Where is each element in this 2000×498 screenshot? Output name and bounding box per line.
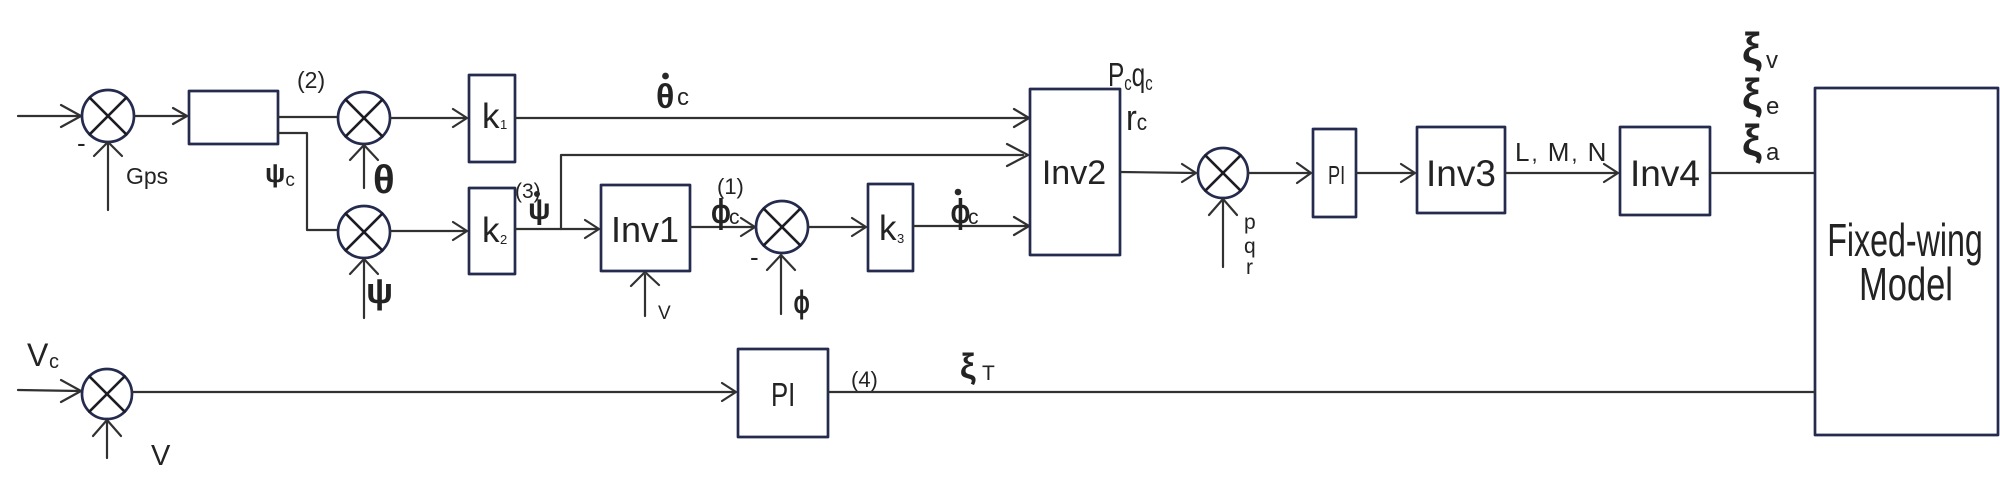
svg-text:-: - <box>77 128 86 158</box>
svg-text:a: a <box>1766 139 1780 166</box>
label Vc <box>27 337 59 373</box>
svg-text:Inv4: Inv4 <box>1630 153 1700 194</box>
wire: S4 to k3 <box>808 218 866 236</box>
wire: PI throttle output to Fixed-wing Model <box>828 391 1815 393</box>
block k1 <box>469 75 515 162</box>
svg-text:c: c <box>49 351 59 373</box>
svg-text:e: e <box>1766 93 1779 120</box>
block PI (rate loop) <box>1313 129 1356 217</box>
label xi_v <box>1742 24 1778 74</box>
svg-text:c: c <box>729 206 740 229</box>
wire: S6 to PI (throttle) <box>132 383 736 401</box>
wire: Inv2 to summing junction S5 <box>1120 164 1196 182</box>
block B1 (empty rectangle) <box>189 91 278 144</box>
svg-text:k: k <box>879 209 897 248</box>
svg-text:θ: θ <box>656 78 674 116</box>
svg-text:rc: rc <box>1126 98 1147 138</box>
label xi_e <box>1742 70 1779 120</box>
wire: S1 to block B1 <box>134 108 187 124</box>
block Inv3 <box>1417 127 1505 213</box>
svg-text:c: c <box>968 206 979 229</box>
svg-text:k: k <box>482 97 500 136</box>
svg-text:ψ: ψ <box>366 270 393 311</box>
svg-text:3: 3 <box>897 231 904 246</box>
svg-text:c: c <box>677 84 689 111</box>
wire: S3 to k2 <box>390 222 467 240</box>
label phi_dot_c <box>951 189 979 231</box>
summing junction S6 (speed error) <box>82 369 132 419</box>
wire: Inv3 to Inv4 (L M N) <box>1505 164 1618 182</box>
svg-text:V: V <box>151 440 171 472</box>
svg-text:Inv3: Inv3 <box>1426 153 1496 194</box>
wire: Gps feedback arrow into S1 from below <box>94 142 122 210</box>
svg-text:Model: Model <box>1859 258 1953 310</box>
wire: psi_c branch from B1 down to summing junction S3 <box>278 133 338 230</box>
block Inv2 <box>1030 89 1120 255</box>
svg-text:ξ: ξ <box>1742 24 1762 73</box>
block k3 <box>868 184 913 271</box>
svg-text:V: V <box>27 337 49 373</box>
svg-text:ϕ: ϕ <box>794 284 810 320</box>
summing junction S3 (heading) <box>338 206 390 258</box>
svg-text:r: r <box>1246 256 1253 279</box>
block Inv4 <box>1620 127 1710 215</box>
svg-text:(4): (4) <box>851 367 878 392</box>
svg-text:Inv1: Inv1 <box>611 209 679 250</box>
svg-text:ψc: ψc <box>265 158 295 191</box>
svg-text:ϕ: ϕ <box>711 193 731 231</box>
summing junction S1 (position error) <box>82 90 134 142</box>
block PI (throttle) <box>738 349 828 437</box>
label phi_c <box>711 193 740 231</box>
svg-text:-: - <box>750 242 759 272</box>
wire: psi arrow into S3 from below <box>350 259 378 318</box>
svg-text:θ: θ <box>373 158 395 202</box>
block Fixed-wing Model <box>1815 88 1998 435</box>
svg-text:ξ: ξ <box>1742 116 1762 165</box>
svg-text:ψ: ψ <box>528 193 551 226</box>
wire: k1 to Inv2 (theta_dot_c command) <box>515 109 1029 127</box>
svg-text:PI: PI <box>771 377 795 414</box>
svg-text:v: v <box>1766 47 1778 74</box>
wire: k2 to Inv1 <box>515 220 599 238</box>
svg-text:1: 1 <box>500 117 507 132</box>
svg-text:p: p <box>1244 211 1256 234</box>
label xi_T <box>960 347 995 386</box>
wire: theta arrow into S2 from below <box>350 145 378 188</box>
wire: k3 to Inv2 (phi_dot_c) <box>913 217 1029 235</box>
svg-text:(2): (2) <box>297 67 325 93</box>
wire: Vc input arrow into summing junction S6 <box>18 380 81 402</box>
svg-text:Inv2: Inv2 <box>1042 154 1106 192</box>
svg-text:T: T <box>982 362 995 385</box>
wire: S2 to k1 <box>390 109 467 127</box>
wire: main input arrow into summing junction S1 <box>18 105 81 127</box>
wire: V arrow into S6 from below <box>93 420 121 458</box>
label xi_a <box>1742 116 1780 166</box>
wire: V arrow into Inv1 from below <box>631 272 659 316</box>
summing junction S2 (pitch) <box>338 92 390 144</box>
svg-text:2: 2 <box>500 232 507 247</box>
svg-text:V: V <box>658 303 671 324</box>
wire: B1 to summing junction S2 <box>278 116 338 118</box>
label p q r <box>1244 211 1256 279</box>
svg-text:q: q <box>1244 235 1256 258</box>
summing junction S4 (roll) <box>756 201 808 253</box>
wire: PI to Inv3 <box>1356 164 1415 182</box>
block Inv1 <box>601 185 690 271</box>
svg-text:ξ: ξ <box>1742 70 1762 119</box>
svg-text:Gps: Gps <box>126 163 168 189</box>
svg-text:Pcqc: Pcqc <box>1108 58 1153 95</box>
summing junction S5 (rate error) <box>1198 148 1248 198</box>
wire: psi_dot branch up to Inv2 second input <box>561 144 1028 229</box>
wire: S5 to PI block <box>1248 163 1311 183</box>
svg-text:L, M, N: L, M, N <box>1515 137 1608 167</box>
label theta_dot_c <box>656 73 689 116</box>
wire: Inv1 to summing junction S4 (phi_c) <box>690 218 755 236</box>
wire: pqr arrow into S5 from below <box>1209 199 1237 267</box>
wire: phi arrow into S4 from below <box>767 255 795 314</box>
wire: Inv4 to Fixed-wing Model <box>1710 172 1815 174</box>
svg-text:ξ: ξ <box>960 347 976 386</box>
block k2 <box>469 188 515 274</box>
svg-text:PI: PI <box>1328 161 1345 190</box>
svg-text:k: k <box>482 211 500 250</box>
label psi_dot <box>528 191 551 226</box>
